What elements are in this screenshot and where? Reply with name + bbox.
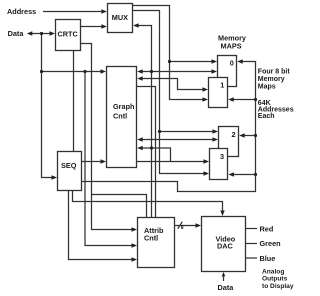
svg-text:to Display: to Display [262,283,294,290]
svg-text:Each: Each [258,113,275,120]
arrowhead into SEQ left [52,175,58,179]
block MUX [108,4,133,33]
svg-text:Green: Green [260,239,281,248]
wire data bus horizontal to Graph Cntl [42,71,102,73]
svg-text:MUX: MUX [112,13,128,22]
svg-text:Graph: Graph [113,102,135,111]
wire CRTC bottom to SEQ top [73,51,75,152]
wire Data bidirectional stub [30,33,51,35]
wire Address line [43,11,102,13]
wire SEQ bottom to Attrib Cntl third input [69,191,133,260]
arrowhead SEQ into Graph Cntl [101,159,107,163]
block Video DAC [202,217,246,272]
arrowhead down into Video DAC top [220,211,224,217]
node dot Data junction [40,32,43,35]
node dot y71 at x151 [150,70,153,73]
wire Graph Cntl stub to map 3 data [137,161,205,163]
wire branch at y194.5 down to Attrib top [92,195,147,218]
svg-text:SEQ: SEQ [61,161,77,170]
node dot bus at map 2 [254,134,257,137]
arrowhead bus into map 1 right [228,97,234,101]
svg-text:Analog: Analog [262,269,284,276]
memory map 0 [218,56,237,87]
svg-text:8: 8 [181,225,184,231]
bus slash 8 [178,222,183,229]
svg-text:CRTC: CRTC [58,30,79,39]
svg-text:3: 3 [220,152,224,161]
wire map 2 right edge to bus [243,135,256,137]
svg-text:Data: Data [8,29,25,38]
wire Graph Cntl to map 0 data [141,71,214,73]
wire MUX input from internal bus [136,26,152,218]
wire MUX output A branch to map 0 [170,61,214,63]
wire SEQ to Graph Cntl [82,161,102,163]
svg-text:0: 0 [230,59,234,68]
arrowhead MUX B into map 2 left [213,129,219,133]
arrowhead CRTC into MUX [101,24,107,28]
wire Video DAC Green output [246,243,258,245]
wire Graph Cntl to map 1 data [141,79,204,90]
memory map 3 [210,149,228,180]
node dot data bus y71 at x41 [40,70,43,73]
memory map 1 [209,78,228,108]
wire SEQ right to memory data bus loop [82,62,256,192]
wire Data input to Video DAC bottom [223,274,225,281]
node dot y147 at x151 [150,146,153,149]
arrowhead bus into map 0 right [237,59,243,63]
wire MUX output B to maps 2 and 3 [133,11,205,174]
wire Attrib Cntl to Video DAC 8-bit bus [175,225,197,227]
arrowhead Data into CRTC [50,31,56,35]
wire branch from node (85,71) down to Attrib Cntl [85,72,132,246]
arrowhead Graph into map 0 left [212,69,218,73]
wire Video DAC Red output [246,228,258,230]
svg-text:Four 8 bit: Four 8 bit [258,69,291,76]
svg-text:Address: Address [7,7,36,16]
block SEQ [58,152,82,191]
node dot MUX B branch to map 2 [158,130,161,133]
wire CRTC to MUX [81,26,103,28]
arrowhead into Attrib input 1 [132,227,138,231]
node dot bus at map 3 [254,173,257,176]
node dot MUX A branch to map 0 [168,60,171,63]
arrowhead bus into MUX right edge [133,23,139,27]
arrowhead data bus into Graph Cntl at y71 [101,69,107,73]
node dot bus at map 1 [254,98,257,101]
arrowhead into Attrib input 3 [132,257,138,261]
svg-text:Data: Data [218,283,235,292]
arrowhead bus into map 2 right [239,133,245,137]
arrowhead MUX B into map 3 left [204,171,210,175]
wire CRTC right to Attrib Cntl first input [81,44,133,230]
node dot y71 at x85 [83,70,86,73]
memory map 2 [219,127,239,157]
svg-text:Cntl: Cntl [113,112,127,121]
arrowhead Address into MUX [101,9,107,13]
arrowhead Data pointing left [27,31,33,35]
block CRTC [56,20,81,51]
arrowhead up into Video DAC bottom [222,272,226,276]
arrowhead MUX A into map 1 left [203,97,209,101]
arrowhead bus into map 3 right [228,172,234,176]
svg-text:1: 1 [220,81,224,90]
wire map 1 right edge to bus [232,99,256,101]
arrowhead into Graph right y139 [137,137,143,141]
wire MUX output A to maps 0 and 1 [133,6,204,100]
svg-text:Memory: Memory [258,76,285,83]
arrowhead into Graph right y78 [137,76,143,80]
svg-text:Outputs: Outputs [262,276,288,283]
wire SEQ bottom to Video DAC top [73,191,223,213]
wire Graph Cntl down to Attrib top [137,87,156,218]
svg-text:Red: Red [260,225,274,234]
block Attrib Cntl [138,218,175,268]
svg-text:Blue: Blue [260,254,276,263]
svg-text:Cntl: Cntl [144,234,158,243]
wire Graph Cntl to map 3 jog [141,148,171,162]
wire Video DAC Blue output [246,257,258,259]
svg-text:2: 2 [232,130,236,139]
arrowhead into Graph right y71 [137,69,143,73]
arrowhead Graph into map 1 left [203,87,209,91]
wire map 3 right edge to bus [232,174,256,176]
arrowhead into Graph right y147 [137,146,143,150]
wire Graph Cntl to map 2 data [141,139,214,141]
arrowhead Graph into map 3 left [204,159,210,163]
svg-text:MAPS: MAPS [221,42,242,51]
svg-text:DAC: DAC [217,242,234,251]
arrowhead Graph into map 2 left [213,137,219,141]
block Graph Cntl [107,67,137,168]
svg-text:Maps: Maps [258,84,276,91]
wire data bus vertical from Data node down to SEQ [42,34,53,178]
arrowhead MUX A into map 0 left [212,59,218,63]
arrowhead Attrib bus into Video DAC left [196,223,202,227]
arrowhead into Attrib input 2 [132,243,138,247]
wire MUX output B branch to map 2 [160,131,215,133]
